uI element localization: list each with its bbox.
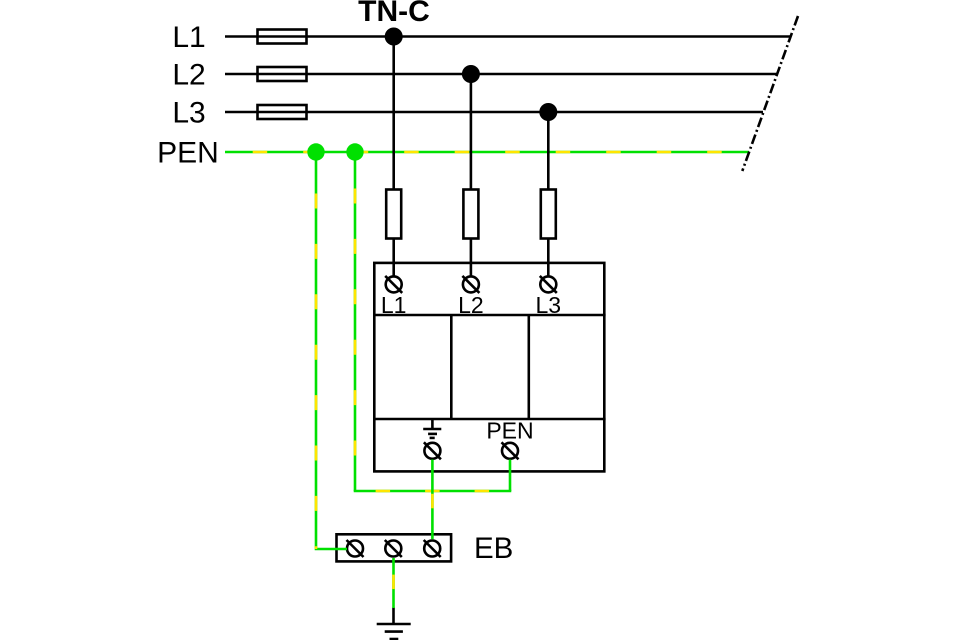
wire horizontal to SPD PEN terminal yellow dashes [355,490,510,493]
terminal EB 2 [385,540,402,557]
wire PEN node2 down (green) [354,160,357,491]
wire PEN bus yellow dashes [225,151,749,154]
wire L1 drop [392,37,395,190]
fuse L1 [258,30,307,44]
SPD divider bottom [373,418,606,421]
svg-text:TN-C: TN-C [358,0,430,28]
wire PEN bus (green) [225,151,749,154]
svg-text:EB: EB [474,532,513,565]
svg-text:L3: L3 [536,292,562,318]
terminal L2 [462,276,479,293]
terminal L1 [385,276,402,293]
fuse L2 [258,67,307,81]
node PEN 1 (green) [307,143,324,160]
fuse F1 vertical [386,190,401,239]
earth symbol bottom bar2 [385,630,403,633]
fuse F2 vertical [463,190,478,239]
terminal L3 [540,276,557,293]
terminal EB 3 [424,540,441,557]
svg-text:PEN: PEN [157,137,219,170]
terminal SPD ground [424,442,441,459]
fuse F3 vertical [541,190,556,239]
node L1 tap [385,28,403,46]
wire L1 [225,35,791,38]
wire L3 drop [547,112,550,190]
SPD box [374,263,604,472]
svg-text:PEN: PEN [486,417,533,443]
wire SPD PEN terminal down (green) [509,460,512,492]
fuse L3 [258,105,307,119]
SPD divider top [373,314,606,317]
wire L3 [225,111,763,114]
node PEN 2 (green) [346,143,363,160]
wire F2 to SPD [470,239,473,277]
wire PEN node1 to EB yellow dashes [315,160,318,549]
svg-text:L2: L2 [458,292,484,318]
wire EB to earth (green) [392,558,395,608]
wire EB to earth yellow dashes [392,558,395,608]
earth symbol bottom stem [392,608,395,625]
wire PEN node1 to EB vertical (green) [316,160,347,549]
SPD divider vertical 1 [450,315,453,419]
SPD divider vertical 2 [527,315,530,419]
wire horizontal to SPD PEN terminal (green) [354,490,512,493]
terminal SPD PEN [502,442,519,459]
wire SPD ground terminal to EB yellow dashes [431,460,434,540]
wire L2 drop [470,74,473,190]
wire F1 to SPD [392,239,395,277]
svg-text:L2: L2 [172,59,205,92]
diagonal continuation mark [742,16,798,171]
wire SPD ground terminal to EB (green) [431,460,434,540]
svg-text:L1: L1 [172,21,205,54]
node L3 tap [539,103,557,121]
EB box [337,534,452,561]
node L2 tap [462,65,480,83]
earth symbol bottom bar3 [390,638,399,640]
wire F3 to SPD [547,239,550,277]
earth symbol SPD [423,419,441,438]
earth symbol bottom bar1 [377,623,411,626]
wire PEN node2 down yellow dashes [354,160,357,491]
terminal EB 1 [347,540,364,557]
svg-text:L1: L1 [381,292,407,318]
svg-text:L3: L3 [172,97,205,130]
wire L2 [225,73,777,76]
